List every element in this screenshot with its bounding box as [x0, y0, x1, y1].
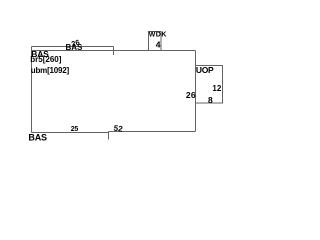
tick: dimension tick at strip end x=113 — [113, 47, 115, 56]
tick: dimension tick at bottom x=108 — [108, 132, 110, 140]
svg-text:52: 52 — [113, 124, 124, 134]
wall: strip top edge of BAS bump-out — [32, 46, 114, 48]
wall: bottom edge right segment — [109, 131, 196, 133]
svg-text:25: 25 — [71, 126, 79, 133]
svg-text:BAS: BAS — [28, 133, 47, 143]
wall: right edge of building — [195, 51, 197, 132]
box: WDK wood deck outline — [149, 32, 162, 51]
svg-text:br5[260]: br5[260] — [30, 55, 61, 64]
wall: main top edge — [32, 50, 196, 52]
svg-text:UOP: UOP — [196, 65, 214, 75]
wall: bottom edge left segment — [32, 132, 109, 134]
svg-text:8: 8 — [208, 95, 213, 105]
svg-text:12: 12 — [212, 84, 221, 93]
svg-text:4: 4 — [156, 39, 161, 49]
svg-text:WDK: WDK — [149, 32, 167, 39]
wall: left edge of building — [31, 47, 33, 133]
svg-text:ubm[1092]: ubm[1092] — [31, 66, 70, 75]
svg-text:26: 26 — [186, 90, 196, 100]
box: UOP open porch outline — [196, 66, 223, 104]
